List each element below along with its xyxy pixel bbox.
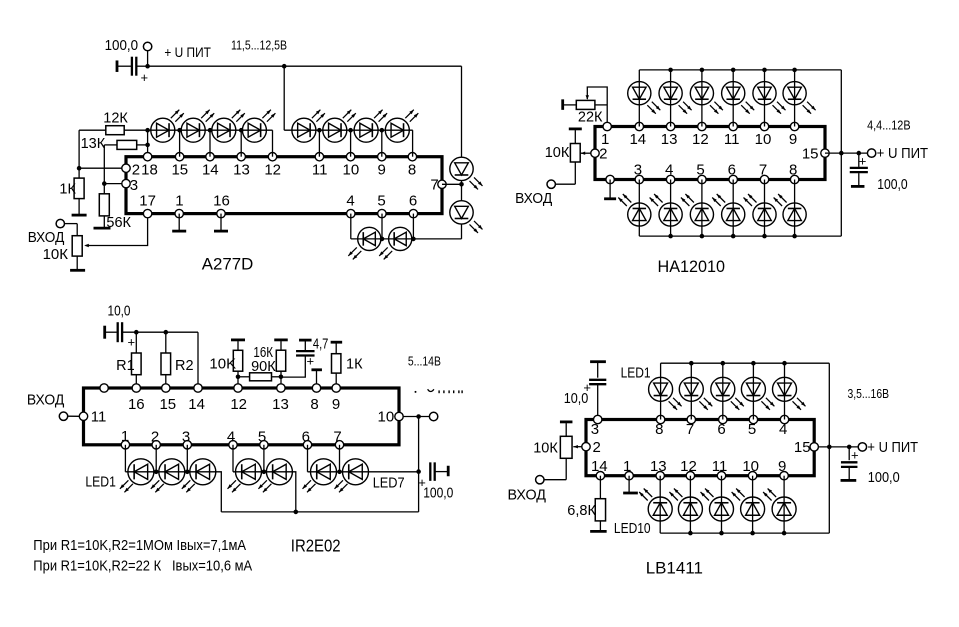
svg-text:100,0: 100,0	[105, 37, 139, 54]
LED D8	[385, 110, 418, 143]
svg-text:1: 1	[121, 428, 129, 445]
svg-text:При R1=10K,R2=22 К Iвых=10,6: При R1=10K,R2=22 К Iвых=10,6 мА	[33, 558, 252, 575]
LED D46	[639, 489, 672, 522]
pin 11	[312, 153, 328, 179]
wire 22К right lead	[595, 104, 607, 106]
svg-text:17: 17	[139, 193, 156, 210]
svg-text:7: 7	[333, 428, 341, 445]
wire 1К to pin 9	[335, 373, 337, 388]
pin 10 circuit2	[755, 122, 772, 148]
svg-text:7: 7	[430, 176, 438, 193]
wire bottom LED6 column circuit2	[794, 180, 796, 237]
svg-text:100,0: 100,0	[423, 484, 453, 501]
svg-text:7: 7	[686, 421, 694, 438]
junction LED3-LED4 pin13	[239, 128, 244, 133]
wire left bus vertical	[78, 130, 80, 178]
svg-text:1: 1	[175, 193, 183, 210]
wire 13К right lead	[137, 144, 148, 146]
terminal bar 22К left	[561, 99, 564, 110]
svg-text:ВХОД: ВХОД	[515, 190, 552, 207]
pin 13 circuit4	[650, 458, 667, 480]
potentiometer 10К circuit2	[545, 144, 581, 163]
wire node to pin 3	[104, 183, 126, 185]
resistor 1К	[59, 178, 84, 199]
resistor 13К	[81, 136, 137, 152]
pin 5 circuit4	[748, 415, 758, 438]
capacitor C7 100,0	[841, 462, 858, 467]
pin 14 circuit2	[629, 122, 646, 148]
terminal bar above 1К circuit3	[331, 341, 343, 344]
wire R2 bottom lead	[165, 375, 167, 388]
wire power rail circuit1	[148, 65, 462, 67]
svg-text:11,5...12,5В: 11,5...12,5В	[231, 38, 287, 53]
wire input to pot circuit2	[556, 183, 576, 185]
svg-text:16: 16	[213, 193, 230, 210]
pin 12 circuit2	[692, 122, 709, 148]
wire 90K left lead	[238, 376, 250, 378]
resistor 16K	[276, 350, 285, 371]
LED D4	[242, 110, 275, 143]
wire pot wiper to pin 2	[581, 152, 591, 154]
svg-text:9: 9	[378, 161, 386, 178]
capacitor C6 10,0	[589, 380, 606, 384]
wire cap top lead circuit2	[858, 153, 860, 167]
wire top rail circuit2	[639, 69, 841, 71]
wire pot bottom lead circuit2	[574, 162, 576, 184]
wire 1К to ground	[78, 199, 80, 215]
wire cap bottom lead circuit2	[858, 173, 860, 186]
svg-text:3: 3	[634, 162, 642, 179]
pin 13	[233, 153, 250, 179]
LED D9	[450, 157, 483, 189]
resistor R2	[161, 353, 194, 375]
pin 7 circuit3	[333, 428, 343, 449]
svg-text:3: 3	[182, 428, 190, 445]
svg-text:+ U ПИТ: + U ПИТ	[867, 439, 918, 456]
svg-text:HA12010: HA12010	[658, 257, 726, 276]
wire R1 bottom lead	[135, 375, 137, 388]
junction bottom rail 4 circuit2	[731, 234, 736, 239]
wire C3 to R-nodes	[122, 331, 198, 333]
LED D12	[379, 227, 412, 259]
wire gnd pin lead	[609, 180, 611, 199]
wire pin13 drop	[240, 130, 242, 157]
LED D22	[659, 82, 692, 114]
wire C3 left lead	[105, 331, 117, 333]
wire bottom LED5 column circuit2	[764, 180, 766, 237]
svg-text:10K: 10K	[209, 355, 236, 372]
svg-text:100,0: 100,0	[868, 469, 900, 486]
svg-text:4: 4	[665, 162, 673, 179]
junction D12 right pin6	[411, 237, 416, 242]
pin 8 circuit4	[655, 415, 665, 438]
wire supply terminal to rail	[147, 51, 149, 67]
wire top LED5 column circuit2	[764, 70, 766, 127]
wire pot top lead	[76, 224, 78, 236]
wire top LED1 column circuit4	[660, 363, 662, 419]
junction pin 3 node	[102, 181, 107, 186]
junction pin7 LED node	[459, 182, 464, 187]
svg-text:10,0: 10,0	[108, 303, 131, 320]
resistor 1К circuit3	[332, 354, 364, 373]
svg-text:3: 3	[130, 177, 138, 194]
junction supply node	[145, 64, 150, 69]
pin 7 circuit2	[759, 162, 769, 184]
svg-text:LED1: LED1	[85, 473, 116, 490]
wire bottom LED2 column circuit2	[670, 180, 672, 237]
pin 5 circuit3	[258, 428, 268, 449]
wire 6,8К to ground	[599, 521, 601, 531]
capacitor C2 100,0	[850, 168, 868, 172]
pin 9 circuit4	[778, 458, 788, 480]
wire rail drop to LED group2	[283, 66, 285, 130]
wire cap top lead circuit4	[848, 447, 850, 460]
ground under 1К	[72, 214, 87, 217]
svg-text:R1: R1	[116, 358, 135, 374]
wire pot top lead circuit4	[565, 423, 567, 436]
ground under pot circuit1	[70, 269, 85, 272]
pin 10 circuit3	[378, 408, 404, 425]
svg-text:6,8К: 6,8К	[567, 503, 596, 519]
wire pin 4 drop	[232, 445, 234, 472]
wire pot wiper to pin 2 circuit4	[573, 446, 582, 448]
junction LED6-LED7	[337, 470, 342, 475]
wire cap bottom lead circuit4	[848, 467, 850, 480]
wire C6 to pin 3	[597, 384, 599, 419]
svg-text:2: 2	[599, 145, 607, 162]
LED D31	[744, 194, 777, 226]
terminal +U supply circuit1	[143, 42, 151, 50]
pin 6 circuit2	[728, 162, 738, 184]
capacitor C3 10,0	[118, 322, 122, 342]
LED D2	[181, 110, 214, 143]
wire bottom LED3 column circuit4	[721, 476, 723, 533]
svg-text:4: 4	[346, 193, 354, 210]
svg-text:10: 10	[742, 458, 759, 475]
junction bottom rail 5 circuit4	[782, 531, 787, 536]
LED D50	[763, 489, 796, 522]
junction D11-D12 pin5	[380, 237, 385, 242]
svg-text:14: 14	[202, 161, 219, 178]
junction cap node circuit3	[416, 469, 421, 474]
svg-text:90К: 90К	[251, 359, 276, 375]
ground under cap circuit4	[841, 479, 857, 482]
ground under cap circuit2	[851, 185, 865, 188]
LED D41	[649, 377, 682, 410]
svg-text:15: 15	[159, 396, 176, 413]
svg-text:+ U ПИТ: + U ПИТ	[164, 44, 211, 60]
wire pin 6 drop	[307, 445, 309, 472]
pin 1 circuit4	[623, 458, 633, 480]
op-amp U1 A277D IC body	[126, 157, 442, 214]
resistor 6,8К	[567, 499, 605, 521]
terminal supply circuit3	[429, 412, 437, 420]
svg-text:IR2E02: IR2E02	[291, 536, 341, 556]
wire LED group C chain	[308, 471, 419, 473]
pin nc circuit3	[100, 384, 108, 392]
pin 8 circuit2	[789, 162, 799, 184]
terminal bar above C4	[299, 339, 312, 342]
wire pin 8 stub	[316, 371, 318, 388]
svg-text:ВХОД: ВХОД	[28, 229, 65, 246]
pin 6 circuit4	[717, 415, 727, 438]
op-amp U4 LB1411 IC body	[586, 420, 814, 476]
svg-text:12: 12	[680, 458, 697, 475]
svg-text:22К: 22К	[578, 110, 603, 126]
wire pin 7 drop	[339, 445, 341, 472]
LED D44	[741, 377, 774, 410]
svg-text:13: 13	[272, 396, 289, 413]
pin gnd circuit2	[606, 175, 614, 183]
wire 12К left lead	[79, 129, 106, 131]
LED D28	[650, 194, 683, 226]
junction top rail 4 circuit4	[751, 361, 756, 366]
wire top LED3 column circuit2	[701, 70, 703, 127]
svg-text:13: 13	[650, 458, 667, 475]
wire pin 10 to terminal	[403, 416, 429, 418]
wire input to pot circuit4	[544, 479, 566, 481]
svg-text:12: 12	[230, 396, 247, 413]
wire bottom LED4 column circuit2	[732, 180, 734, 237]
pin 11 circuit3	[79, 409, 106, 426]
pin 3 circuit3	[182, 428, 192, 449]
svg-text:100,0: 100,0	[877, 176, 907, 193]
wire R1 top lead	[135, 332, 137, 353]
wire pot bottom lead circuit4	[565, 458, 567, 479]
pin 8	[408, 153, 417, 179]
pin 4 circuit2	[665, 162, 675, 184]
svg-text:5: 5	[377, 193, 385, 210]
ground under 6,8К	[590, 530, 607, 533]
wire node to pin 18	[147, 130, 149, 157]
wire bottom LED5 column circuit4	[783, 476, 785, 533]
wire LED group A chain	[125, 472, 221, 512]
wire pin11 drop	[318, 130, 320, 157]
svg-text:14: 14	[629, 131, 646, 148]
pin 16	[213, 193, 230, 218]
LED2 circuit3	[151, 459, 185, 493]
pin 4 circuit4	[779, 415, 789, 438]
capacitor C5 100,0 circuit3	[430, 462, 434, 481]
svg-text:1К: 1К	[59, 182, 76, 198]
wire pin 5 drop	[381, 214, 383, 239]
pin 10 circuit4	[742, 458, 759, 480]
svg-text:8: 8	[789, 162, 797, 179]
junction bottom rail 2 circuit2	[668, 234, 673, 239]
pin 2 circuit3	[151, 428, 161, 449]
pin 4	[346, 193, 355, 218]
resistor 12К	[103, 111, 128, 135]
svg-text:+: +	[128, 335, 136, 350]
wire top rail circuit4	[661, 362, 830, 364]
LED D26	[783, 82, 816, 114]
svg-text:+: +	[851, 448, 859, 463]
wire pin 1 to ground circuit4	[628, 476, 630, 493]
svg-text:6: 6	[728, 162, 736, 179]
wire C1 to supply node	[136, 65, 147, 67]
svg-text:9: 9	[789, 131, 797, 148]
wire top LED4 column circuit4	[752, 363, 754, 419]
pin 7 circuit4	[686, 415, 696, 438]
wire pin8 drop	[412, 130, 414, 157]
junction top rail 6 circuit2	[792, 68, 797, 73]
svg-text:5: 5	[258, 428, 266, 445]
wire LED chain group2	[284, 129, 413, 131]
pin 15	[171, 153, 188, 179]
wire top LED3 column circuit4	[722, 363, 724, 419]
pin 9 circuit3	[332, 384, 341, 413]
svg-text:6: 6	[717, 421, 725, 438]
svg-text:3,5...16В: 3,5...16В	[848, 386, 890, 401]
wire pin15 drop	[179, 130, 181, 157]
pin 5 circuit2	[696, 162, 706, 184]
svg-text:12: 12	[692, 131, 709, 148]
junction 10K 90K pin12	[236, 375, 241, 380]
svg-text:15: 15	[171, 161, 188, 178]
svg-text:1К: 1К	[346, 356, 363, 372]
wire drop to pin 14	[197, 332, 199, 388]
junction bottom rail 5 circuit2	[762, 234, 767, 239]
LED6 circuit3	[303, 459, 337, 493]
LED D5	[292, 110, 325, 143]
LED D25	[753, 82, 786, 114]
svg-text:14: 14	[188, 396, 205, 413]
pin 9 circuit2	[789, 122, 799, 148]
wire 22К wiper to pin 1	[587, 87, 607, 127]
terminal bar above C6	[590, 360, 606, 363]
wire bottom LED chain	[351, 238, 462, 240]
svg-text:9: 9	[332, 396, 340, 413]
junction LED1-LED2	[154, 470, 159, 475]
junction bottom rail 4 circuit4	[750, 531, 755, 536]
op-amp U2 HA12010 IC body	[595, 127, 825, 180]
pin 2	[122, 161, 140, 178]
LED D48	[701, 489, 734, 522]
wire 12К right lead	[124, 129, 147, 131]
LED D29	[681, 194, 714, 226]
junction bottom rail 3 circuit4	[719, 531, 724, 536]
terminal bar above pot circuit4	[560, 420, 573, 423]
svg-text:7: 7	[759, 162, 767, 179]
wire pin 6 drop	[412, 214, 414, 239]
capacitor C4 4,7	[296, 351, 315, 355]
op-amp U3 IR2E02 IC body	[84, 388, 400, 445]
pin 2 circuit2	[591, 145, 608, 162]
pin 11 circuit4	[712, 458, 728, 480]
wire C4 top lead	[304, 341, 306, 350]
junction pin10 node	[416, 414, 421, 419]
svg-text:LB1411: LB1411	[646, 558, 703, 577]
svg-text:16: 16	[128, 396, 145, 413]
wire 10K to pin 12	[237, 371, 239, 388]
pin 10	[343, 153, 360, 179]
svg-text:10: 10	[343, 161, 360, 178]
svg-text:LED1: LED1	[621, 364, 651, 381]
wire bottom rail circuit4	[660, 532, 829, 534]
arrowhead 22К wiper	[586, 95, 589, 100]
svg-text:8: 8	[655, 421, 663, 438]
pin 17	[139, 193, 156, 218]
wire bottom LED3 column circuit2	[701, 180, 703, 237]
wire top LED2 column circuit2	[670, 70, 672, 127]
terminal bar pin 8 stub	[311, 368, 322, 371]
junction LED1-LED2 pin15	[177, 128, 182, 133]
resistor 10K circuit3	[209, 350, 242, 372]
wire input to pin 11	[68, 415, 80, 417]
pin 1 circuit3	[121, 428, 130, 449]
terminal bar above 10K circuit3	[231, 338, 245, 341]
svg-text:2: 2	[151, 428, 159, 445]
wire top LED6 column circuit2	[794, 70, 796, 127]
junction top rail 3 circuit2	[700, 68, 705, 73]
svg-text:13: 13	[233, 161, 250, 178]
pin 2 circuit4	[582, 439, 601, 456]
LED D24	[722, 82, 755, 114]
potentiometer 10К circuit4	[533, 436, 572, 458]
junction LED2-LED3	[185, 470, 190, 475]
wire pin10 drop	[350, 130, 352, 157]
junction node pin18 LED1	[145, 128, 150, 133]
junction top rail 4 circuit2	[731, 68, 736, 73]
pin 15 circuit2	[802, 146, 829, 163]
pin 3	[122, 177, 138, 194]
junction 13К to pin18 line	[145, 143, 150, 148]
pin 18	[141, 153, 158, 179]
resistor R1	[116, 353, 141, 375]
LED3 circuit3	[182, 459, 216, 493]
svg-text:14: 14	[591, 458, 608, 475]
pin 16 circuit3	[128, 384, 145, 413]
svg-text:8: 8	[408, 161, 416, 178]
junction top rail 2 circuit4	[689, 361, 694, 366]
LED D1	[151, 110, 184, 143]
wire top LED5 column circuit4	[784, 363, 786, 419]
svg-text:+: +	[141, 70, 149, 85]
svg-text:8: 8	[310, 396, 318, 413]
junction cap circuit4	[847, 445, 852, 450]
LED D49	[732, 489, 765, 522]
wire 13К to 56К vertical	[103, 145, 105, 194]
terminal bar above pot circuit2	[569, 127, 582, 130]
pin 12 circuit4	[680, 458, 697, 480]
wire bottom LED1 column circuit2	[638, 180, 640, 237]
terminal bar capacitor C1 left	[116, 60, 119, 71]
terminal ВХОД circuit3	[59, 412, 67, 420]
junction R1 top	[134, 330, 139, 335]
svg-text:10,0: 10,0	[564, 390, 589, 407]
pin 14	[202, 153, 219, 179]
junction bottom rail 3 circuit2	[700, 234, 705, 239]
svg-text:+: +	[859, 154, 867, 169]
terminal bar above 16K	[274, 338, 288, 341]
svg-text:A277D: A277D	[202, 255, 254, 274]
wire 16K top lead	[280, 341, 282, 350]
wire supply column circuit3	[418, 417, 420, 512]
svg-text:10К: 10К	[545, 145, 570, 161]
svg-text:15: 15	[802, 146, 819, 163]
wire LED group B chain	[233, 472, 296, 512]
wire right rail circuit4	[828, 363, 830, 533]
svg-text:3: 3	[591, 421, 599, 438]
LED D32	[774, 194, 807, 226]
pin 15 circuit4	[794, 439, 818, 456]
LED D30	[712, 194, 745, 226]
pin 14 circuit4	[591, 458, 608, 480]
svg-text:R2: R2	[175, 358, 194, 374]
svg-text:6: 6	[302, 428, 310, 445]
wire 10K top lead circuit3	[237, 341, 239, 350]
terminal +U supply circuit4	[858, 443, 866, 451]
